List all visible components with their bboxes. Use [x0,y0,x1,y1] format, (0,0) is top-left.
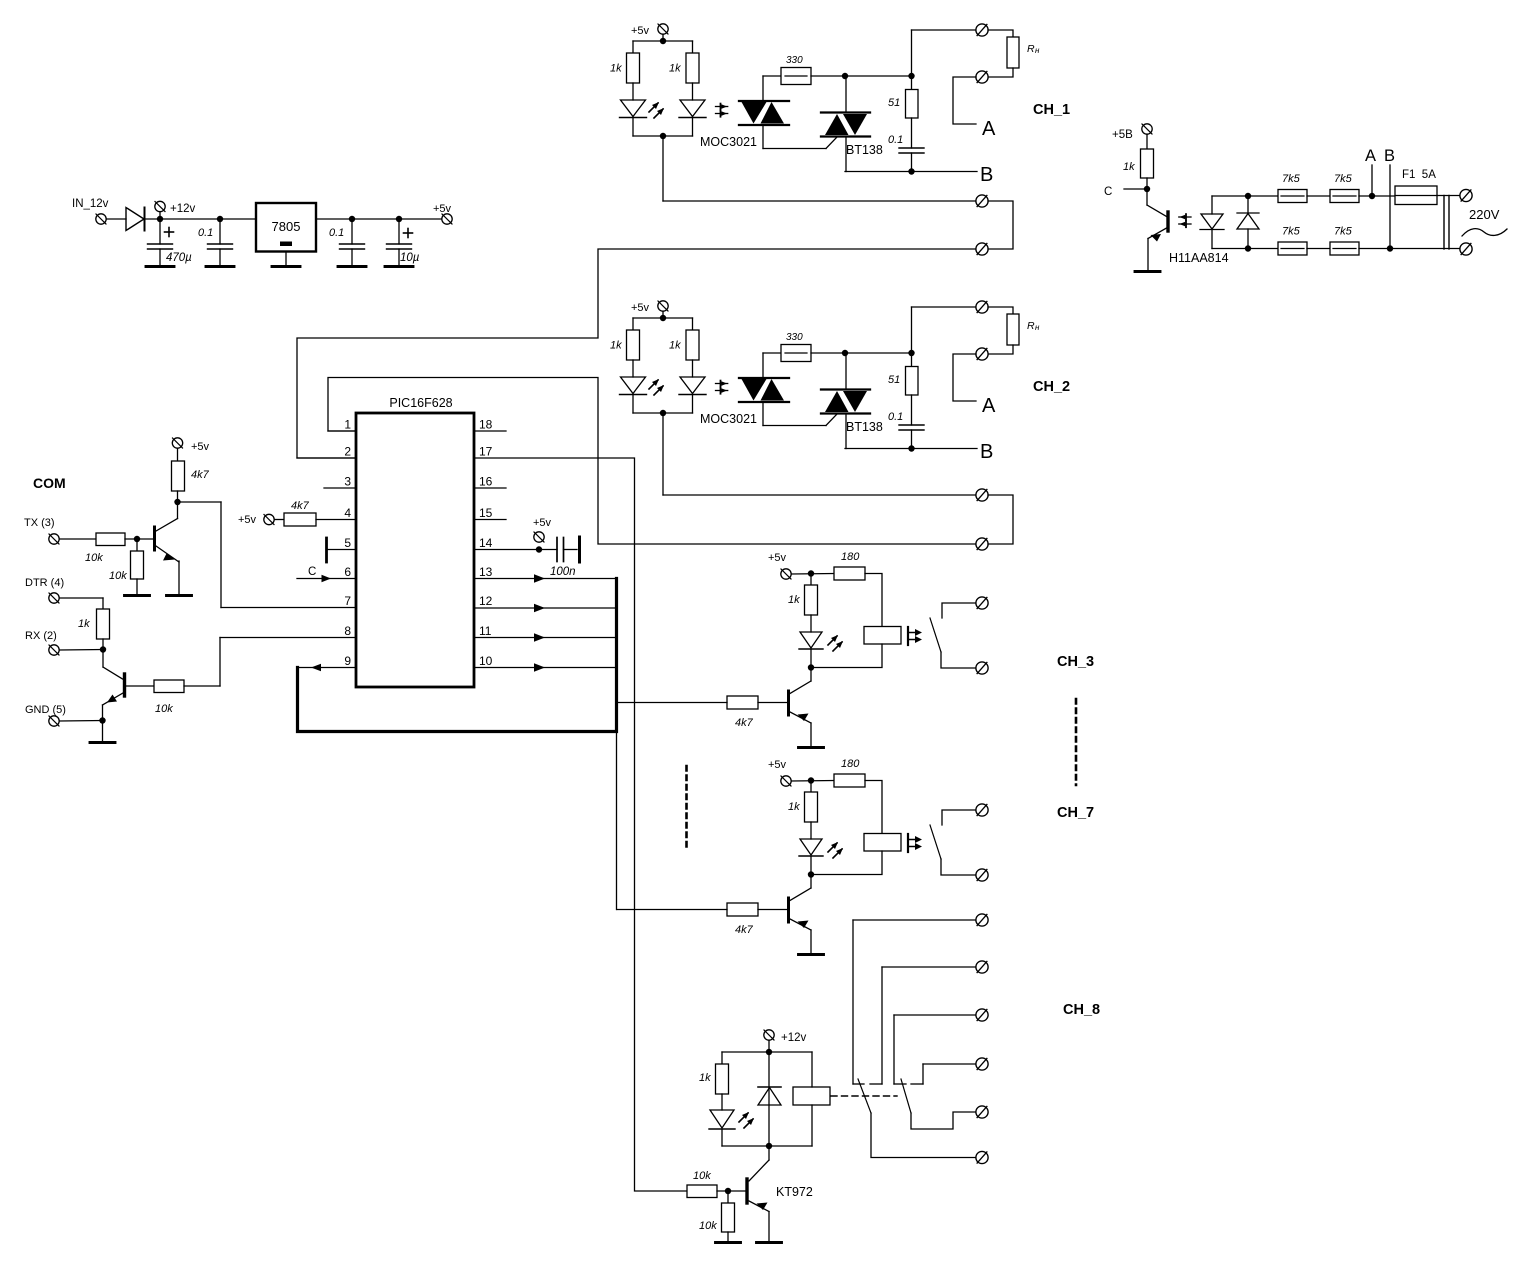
terminal load1 CH_2 [976,301,988,313]
terminal CH_1 j1 [976,195,988,207]
svg-text:+5v: +5v [191,441,210,453]
ground [338,265,366,268]
connector bars [1443,196,1445,250]
terminal D8 [976,1058,988,1070]
svg-text:+5v: +5v [533,517,552,529]
wire [865,574,882,627]
node +12v [157,216,163,222]
svg-text:A: A [1365,147,1376,165]
wire [811,75,912,77]
resistor 180 CH_7 [834,774,865,787]
wire [60,538,97,540]
opto arrows relay CH_7 [908,834,922,852]
LED indicator CH_3 [810,615,812,632]
wire [316,218,442,220]
ground [167,594,192,597]
pin 18 stub [474,430,506,432]
LED indicator CH_1 [632,83,634,100]
svg-text:+5v: +5v [768,552,787,564]
wire CH_1 drive [662,136,664,201]
svg-text:B: B [980,441,993,463]
wire [768,1212,770,1243]
capacitor 0.1 (a) [219,219,221,244]
svg-text:0.1: 0.1 [888,411,903,423]
wire jumper CH_1 [988,201,1013,249]
wire [1248,248,1278,250]
pin 1 stub [328,430,356,432]
pin 2 stub [297,457,356,459]
wire [845,137,847,172]
terminal +5v (pin14) [534,532,544,542]
wire drive CH_3 [617,702,727,704]
phototransistor H11AA814 [1146,189,1148,205]
node A CH_2 [953,354,976,401]
svg-text:7k5: 7k5 [1334,226,1353,238]
wire [811,352,912,354]
pin 15 stub [474,519,506,521]
svg-text:5: 5 [344,536,351,550]
wire [184,685,220,687]
node C [1146,178,1148,189]
svg-text:8: 8 [344,624,351,638]
svg-text:C: C [308,566,316,578]
svg-text:10k: 10k [699,1220,717,1232]
resistor 7k5 (2) [1330,190,1359,203]
svg-text:TX (3): TX (3) [24,517,55,529]
ground [1135,270,1160,273]
terminal B8 [976,961,988,973]
wire contact B [882,966,976,968]
svg-text:7k5: 7k5 [1282,226,1301,238]
resistor 10k (RX base) [154,680,184,693]
ground [727,1232,729,1242]
switch blade CH_3 [930,618,941,652]
svg-text:DTR (4): DTR (4) [25,577,64,589]
transistor Q1 [153,527,156,550]
svg-text:10k: 10k [155,703,173,715]
terminal RX (2) [49,645,59,655]
wire [316,519,356,521]
wire [941,859,976,875]
svg-text:GND (5): GND (5) [25,704,66,716]
terminal +12v [155,201,165,211]
terminal sw2 CH_7 [976,869,988,881]
opto arrows CH_1 [716,104,728,117]
svg-text:KT972: KT972 [776,1185,813,1199]
relay coil CH_3 [864,627,901,645]
svg-text:4k7: 4k7 [291,500,310,512]
terminal +12v CH_8 [764,1030,774,1040]
svg-text:1k: 1k [78,618,90,630]
capacitor 0.1 (b) [351,219,353,244]
wire contact C [894,1014,976,1016]
wire [633,412,693,414]
resistor 330 CH_1 [781,68,811,85]
resistor 10k CH_8 base [687,1185,717,1198]
resistor 51 CH_1 [911,76,913,90]
resistor 7k5 (4) [1330,242,1359,255]
svg-text:180: 180 [841,758,860,770]
svg-text:12: 12 [479,594,493,608]
ground [136,579,138,595]
wire drive CH_7 [617,909,727,911]
wire [792,573,835,576]
svg-text:+5v: +5v [238,514,257,526]
node C arrow (pin6) [297,578,356,580]
wire pin17 net [474,458,687,1191]
resistor 180 CH_3 [834,567,865,580]
terminal +5v (supply out) [442,214,452,224]
svg-text:18: 18 [479,418,493,432]
svg-text:1k: 1k [669,63,681,75]
resistor 4k7 (pin4) [275,519,285,521]
svg-text:220V: 220V [1469,207,1500,222]
wire pin7 net [178,501,222,503]
svg-text:4: 4 [344,506,351,520]
node [536,546,542,552]
svg-text:10µ: 10µ [400,252,420,264]
resistor 10k CH_8 pulldown [727,1191,729,1203]
sine 220V [1462,229,1507,236]
svg-text:PIC16F628: PIC16F628 [389,396,452,410]
capacitor 100n [556,538,558,562]
wire [845,76,847,113]
resistor 10k (TX pulldown) [136,539,138,551]
svg-text:CH_3: CH_3 [1057,654,1094,670]
relay coil CH_8 [793,1087,830,1105]
svg-text:17: 17 [479,445,493,459]
terminal sw1 CH_7 [976,804,988,816]
svg-text:+12v: +12v [170,203,196,215]
wire [845,414,847,449]
terminal +5v CH_3 [781,569,791,579]
terminal +5v (COM) [172,438,182,448]
wire pin10 [474,667,617,669]
node [768,1041,770,1053]
svg-text:330: 330 [786,332,803,343]
svg-text:+5v: +5v [433,203,452,215]
switch blade CH_7 [930,825,941,859]
wire [1359,248,1460,250]
wire [911,30,913,76]
svg-text:10: 10 [479,654,493,668]
svg-text:+5v: +5v [768,759,787,771]
LED pair H11AA814 [1212,195,1248,197]
node A CH_1 [953,77,976,124]
svg-text:180: 180 [841,551,860,563]
wire contact A [853,919,976,921]
capacitor 0.1 snubber CH_1 [911,118,913,148]
capacitor 470u [159,219,161,244]
svg-text:B: B [980,164,993,186]
resistor 4k7 CH_3 [727,696,758,709]
switch contact top CH_3 [942,603,976,618]
svg-text:0.1: 0.1 [198,227,213,239]
wire pin1 net [328,378,976,545]
svg-text:1k: 1k [669,340,681,352]
wire pin14 net [474,549,557,551]
resistor 1k left CH_1 [632,41,634,53]
svg-text:F1 5A: F1 5A [1402,169,1436,181]
resistor 1k right CH_2 [692,318,694,330]
svg-text:BT138: BT138 [846,420,883,434]
load Rn CH_1 [988,30,1013,37]
capacitor 0.1 snubber CH_2 [911,395,913,425]
wire [762,353,764,378]
capacitor 10u [398,219,400,244]
wire [845,353,847,390]
svg-text:470µ: 470µ [166,252,192,264]
ground [102,721,104,743]
svg-text:+5v: +5v [631,25,650,37]
LED opto emitter CH_1 [692,83,694,100]
svg-text:B: B [1384,147,1395,165]
terminal load1 CH_1 [976,24,988,36]
terminal sw2 CH_3 [976,662,988,674]
diode D1 input [126,208,144,231]
svg-text:1k: 1k [699,1072,711,1084]
optotriac MOC3021 CH_1 [739,100,789,102]
svg-text:11: 11 [479,624,492,638]
resistor 4k7 (COM) [177,449,179,462]
terminal CH_2 j2 [976,538,988,550]
LED indicator CH_8 [721,1094,723,1110]
wire [810,723,812,747]
svg-text:+12v: +12v [781,1032,807,1044]
triac BT138 CH_1 [821,111,870,113]
svg-text:1: 1 [344,418,351,432]
triac BT138 CH_2 [821,388,870,390]
node [60,720,103,723]
pin 5 stub [327,549,356,551]
ground [206,265,234,268]
svg-text:3: 3 [344,475,351,489]
bus thick [298,579,617,732]
wire [102,639,104,649]
terminal TX (3) [49,534,59,544]
svg-text:4k7: 4k7 [735,717,754,729]
wire [1437,195,1460,197]
wire gate [762,125,764,149]
svg-text:+5B: +5B [1112,129,1133,141]
pin 16 stub [474,487,506,489]
load Rn CH_2 [988,307,1013,314]
terminal +5v CH_1 [658,24,668,34]
svg-text:10k: 10k [85,552,103,564]
svg-text:13: 13 [479,565,493,579]
ground [385,265,413,268]
svg-text:COM: COM [33,475,66,491]
wire [633,317,693,319]
terminal +5v CH_2 [658,301,668,311]
wire [1248,195,1278,197]
terminal F8 [976,1106,988,1118]
svg-text:7k5: 7k5 [1282,173,1301,185]
wire jumper CH_2 [988,495,1013,544]
svg-text:4k7: 4k7 [735,924,754,936]
wire [1307,248,1330,250]
svg-text:MOC3021: MOC3021 [700,135,757,149]
node B (mains) [1389,165,1391,249]
svg-text:н: н [1035,323,1040,332]
terminal IN_12v [96,214,106,224]
svg-text:1k: 1k [788,801,800,813]
svg-text:330: 330 [786,55,803,66]
terminal E8 [976,1151,988,1163]
svg-text:1k: 1k [788,594,800,606]
svg-text:16: 16 [479,475,493,489]
ground [799,746,824,749]
svg-text:9: 9 [344,654,351,668]
wire [145,218,161,220]
svg-text:7k5: 7k5 [1334,173,1353,185]
wire pin8 net [126,685,154,687]
svg-text:CH_1: CH_1 [1033,102,1070,118]
svg-text:1k: 1k [610,340,622,352]
svg-text:BT138: BT138 [846,143,883,157]
link dashed CH_8 [831,1095,897,1097]
wire [178,561,180,595]
switch contact top CH_7 [942,810,976,825]
transistor CH_7 [810,875,812,889]
IC U1 PIC16F628 [356,413,474,687]
wire CH_2 drive [662,413,664,495]
svg-text:51: 51 [888,374,900,386]
node [60,649,104,652]
opto arrows relay CH_3 [908,627,922,645]
regulator U2 7805 [256,203,316,252]
ground [799,953,824,956]
svg-text:100n: 100n [550,566,576,578]
fuse F1 5A [1395,186,1437,205]
svg-text:A: A [982,118,996,140]
separator dashed left [685,766,688,851]
pin 3 stub [324,487,356,489]
resistor 1k right CH_1 [692,41,694,53]
resistor 10k (TX series) [96,533,125,546]
wire [810,930,812,954]
resistor 1k CH_3 [810,574,812,586]
resistor 1k CH_7 [810,781,812,793]
node [177,491,179,502]
opto arrows H11 [1179,214,1191,227]
terminal load2 CH_1 [976,71,988,83]
resistor 1k (DTR) [97,609,110,639]
wire [125,538,153,540]
switch blade 1 CH_8 [858,1079,871,1113]
terminal +5v (pin4) [264,514,274,524]
wire gate [762,402,764,426]
svg-text:1k: 1k [610,63,622,75]
wire [722,1145,812,1147]
resistor 51 CH_2 [911,353,913,367]
resistor 1k left CH_2 [632,318,634,330]
svg-text:CH_8: CH_8 [1063,1002,1100,1018]
ground [146,265,174,268]
separator dashed right [1075,699,1078,785]
svg-text:7805: 7805 [272,219,301,234]
wire contact D [923,1063,976,1065]
ground [285,252,287,267]
svg-text:4k7: 4k7 [191,469,210,481]
svg-text:RX (2): RX (2) [25,630,57,642]
svg-text:R: R [1027,320,1035,332]
terminal +5B [1142,124,1152,134]
wire pin12 [474,607,617,609]
wire bus to CH_7 [616,732,618,910]
svg-text:A: A [982,395,996,417]
svg-text:1k: 1k [1123,161,1135,173]
wire [911,307,913,353]
terminal CH_2 j1 [976,489,988,501]
terminal C8 [976,1009,988,1021]
transistor Q2 [102,650,104,668]
svg-text:10k: 10k [693,1170,711,1182]
wire [941,652,976,668]
resistor 1k H11 [1146,135,1148,150]
LED indicator CH_7 [810,822,812,839]
wire [60,597,104,599]
wire [1359,195,1395,197]
relay coil CH_7 [864,834,901,852]
svg-text:CH_2: CH_2 [1033,379,1070,395]
wire [865,781,882,834]
wire [160,218,256,220]
svg-text:IN_12v: IN_12v [72,198,109,210]
wire pin13 [474,578,617,580]
svg-text:7: 7 [344,594,351,608]
node A (mains) [1371,165,1373,196]
terminal sw1 CH_3 [976,597,988,609]
svg-text:51: 51 [888,97,900,109]
terminal +5v CH_7 [781,776,791,786]
wire pin11 [474,637,617,639]
svg-text:+5v: +5v [631,302,650,314]
transistor CH_3 [810,668,812,682]
svg-text:CH_7: CH_7 [1057,805,1094,821]
svg-text:10k: 10k [109,570,127,582]
svg-text:н: н [1035,46,1040,55]
wire [633,135,693,137]
terminal CH_1 j2 [976,243,988,255]
svg-text:MOC3021: MOC3021 [700,412,757,426]
svg-text:2: 2 [344,445,351,459]
terminal A8 [976,914,988,926]
resistor 330 CH_2 [781,345,811,362]
optotriac MOC3021 CH_2 [739,377,789,379]
wire [107,218,127,220]
svg-text:H11AA814: H11AA814 [1169,251,1229,265]
resistor 7k5 (1) [1278,190,1307,203]
terminal mains2 [1460,243,1472,255]
svg-text:R: R [1027,43,1035,55]
svg-text:0.1: 0.1 [888,134,903,146]
node B CH_2 [845,448,977,450]
transistor KT972 [768,1146,770,1160]
terminal mains1 [1460,189,1472,201]
pin 9 arrow [299,667,356,669]
switch blade 2 CH_8 [901,1079,911,1113]
wire [1307,195,1330,197]
wire pin2 net [297,249,976,458]
wire [762,76,764,101]
diode flyback CH_8 [768,1052,770,1146]
node B CH_1 [845,171,977,173]
svg-text:6: 6 [344,565,351,579]
opto arrows CH_2 [716,381,728,394]
svg-text:C: C [1104,186,1112,198]
svg-text:0.1: 0.1 [329,227,344,239]
